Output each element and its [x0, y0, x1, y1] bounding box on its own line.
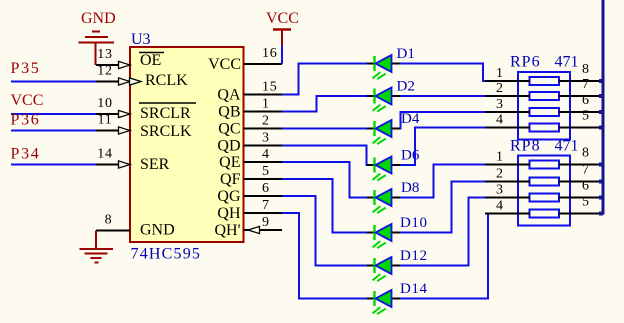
- wire LED D8 to resistor pack: [400, 165, 486, 198]
- pin 2 of RP8: [485, 181, 530, 183]
- svg-text:QC: QC: [218, 121, 240, 138]
- resistor RP8.2: [530, 178, 560, 186]
- pin 5 QF (right): [244, 178, 283, 180]
- svg-text:D10: D10: [400, 215, 428, 231]
- svg-text:13: 13: [97, 47, 113, 62]
- wire LED D6 to resistor pack: [400, 128, 486, 166]
- svg-text:7: 7: [582, 163, 589, 178]
- svg-text:3: 3: [496, 97, 503, 112]
- wire LED D1 to resistor pack: [400, 64, 486, 82]
- resistor pack RP8 body: [518, 156, 570, 226]
- svg-text:QE: QE: [219, 154, 240, 171]
- pin 15 QA (right): [244, 94, 283, 96]
- pin 4 QE (right): [244, 161, 283, 163]
- pin 3 of RP6: [485, 111, 530, 113]
- resistor RP6.2: [530, 92, 560, 100]
- svg-text:QA: QA: [217, 87, 241, 104]
- svg-text:D4: D4: [401, 111, 420, 127]
- junction dot RP8 pin 8: [599, 163, 603, 167]
- resistor RP8.1: [530, 161, 560, 169]
- resistor RP6.3: [530, 108, 560, 116]
- svg-text:7: 7: [262, 198, 270, 213]
- LED D1: [367, 55, 401, 79]
- wire VCC to pin16: [281, 46, 283, 65]
- junction dot RP8 pin 6: [599, 196, 603, 200]
- LED D14: [367, 290, 401, 314]
- svg-text:P34: P34: [11, 146, 41, 163]
- wire LED D10 to resistor pack: [400, 182, 486, 233]
- svg-text:D1: D1: [397, 46, 415, 62]
- svg-text:471: 471: [555, 54, 579, 71]
- resistor pack RP6 body: [518, 72, 570, 140]
- svg-text:D12: D12: [400, 248, 428, 264]
- pin 1 of RP8: [485, 164, 530, 166]
- wire LED D12 to resistor pack: [400, 198, 486, 266]
- svg-text:2: 2: [262, 114, 270, 129]
- LED D10: [367, 224, 401, 248]
- wire QA to LED: [282, 64, 368, 95]
- svg-text:RCLK: RCLK: [145, 72, 188, 89]
- wire net P36: [11, 130, 96, 132]
- GND power symbol (top): [79, 32, 115, 66]
- pin 8 GND (left): [96, 230, 130, 232]
- svg-text:QB: QB: [218, 104, 240, 121]
- svg-text:SRCLR: SRCLR: [140, 105, 191, 122]
- junction dot RP8 pin 5: [599, 212, 603, 216]
- pin 11 SRCLK (left): [96, 130, 130, 132]
- junction dot RP6 pin 5: [599, 126, 603, 130]
- svg-text:GND: GND: [140, 222, 175, 239]
- pin 8 of RP6: [559, 80, 603, 82]
- pin 12 RCLK (left): [96, 81, 130, 83]
- svg-text:8: 8: [582, 146, 589, 161]
- wire QH to LED: [282, 213, 368, 299]
- svg-text:8: 8: [582, 62, 589, 77]
- svg-text:6: 6: [582, 179, 589, 194]
- svg-text:QF: QF: [220, 171, 241, 188]
- svg-text:SRCLK: SRCLK: [140, 123, 192, 140]
- junction dot RP6 pin 6: [599, 110, 603, 114]
- pin 2 QC (right): [244, 128, 283, 130]
- svg-text:U3: U3: [131, 31, 151, 48]
- pin 10 SRCLR (left): [96, 113, 130, 115]
- svg-text:12: 12: [97, 64, 113, 79]
- svg-text:VCC: VCC: [266, 10, 299, 27]
- svg-text:VCC: VCC: [11, 92, 44, 109]
- wire LED D14 to resistor pack: [400, 215, 488, 299]
- svg-text:QH: QH: [217, 205, 241, 222]
- pin 6 QG (right): [244, 195, 283, 197]
- pin 2 of RP6: [485, 95, 530, 97]
- wire QF to LED: [282, 179, 368, 233]
- svg-text:4: 4: [496, 113, 503, 128]
- LED D4: [367, 120, 401, 144]
- pin 5 of RP8: [559, 213, 603, 215]
- svg-text:RP8: RP8: [510, 138, 541, 155]
- svg-text:5: 5: [582, 109, 589, 124]
- pin 3 QD (right): [244, 145, 283, 147]
- svg-text:1: 1: [262, 97, 270, 112]
- svg-text:8: 8: [105, 213, 113, 228]
- LED D2: [367, 88, 401, 112]
- pin 13 OE (left): [96, 64, 130, 66]
- svg-text:RP6: RP6: [510, 54, 541, 71]
- svg-text:4: 4: [496, 199, 503, 214]
- svg-text:D6: D6: [401, 148, 420, 164]
- svg-text:VCC: VCC: [208, 56, 241, 73]
- wire net VCC: [11, 113, 96, 115]
- wire net P35: [11, 81, 96, 83]
- svg-text:4: 4: [262, 147, 270, 162]
- wire LED D4 to resistor pack: [400, 112, 486, 129]
- resistor RP6.4: [530, 124, 560, 132]
- svg-text:QD: QD: [217, 138, 240, 155]
- wire VCC bus (right edge): [602, 0, 605, 215]
- resistor RP8.4: [530, 210, 560, 218]
- wire net P34: [11, 164, 96, 166]
- svg-text:1: 1: [496, 66, 503, 81]
- svg-text:6: 6: [262, 181, 270, 196]
- svg-text:74HC595: 74HC595: [131, 246, 202, 263]
- svg-text:7: 7: [582, 77, 589, 92]
- wire QC to LED: [282, 128, 368, 130]
- pin 1 of RP6: [485, 80, 530, 82]
- ground symbol (bottom): [95, 231, 97, 249]
- pin 4 of RP8: [485, 213, 530, 215]
- svg-text:1: 1: [496, 150, 503, 165]
- pin 7 of RP6: [559, 95, 603, 97]
- svg-text:5: 5: [262, 164, 270, 179]
- svg-text:16: 16: [262, 46, 278, 61]
- svg-text:9: 9: [262, 215, 270, 230]
- pin 1 QB (right): [244, 111, 283, 113]
- svg-text:3: 3: [262, 131, 270, 146]
- LED D12: [367, 257, 401, 281]
- pin 5 of RP6: [559, 127, 603, 129]
- svg-text:10: 10: [97, 96, 113, 111]
- svg-text:GND: GND: [81, 10, 116, 27]
- wire QD to LED: [282, 146, 368, 166]
- pin 6 of RP6: [559, 111, 603, 113]
- junction dot RP6 pin 7: [599, 94, 603, 98]
- pin 3 of RP8: [485, 197, 530, 199]
- IC U3 74HC595 chip body: [130, 47, 244, 242]
- svg-text:QG: QG: [217, 188, 241, 205]
- svg-text:QH': QH': [215, 222, 241, 239]
- svg-text:15: 15: [262, 80, 278, 95]
- VCC power symbol (top): [273, 28, 291, 31]
- resistor RP8.3: [530, 194, 560, 202]
- svg-text:D2: D2: [397, 79, 415, 95]
- svg-text:2: 2: [496, 167, 503, 182]
- wire QB to LED: [282, 96, 368, 112]
- pin 6 of RP8: [559, 197, 603, 199]
- junction dot RP6 pin 8: [599, 79, 603, 83]
- pin 8 of RP8: [559, 164, 603, 166]
- pin 7 QH (right): [244, 212, 283, 214]
- pin 9 QH' (right): [244, 229, 283, 231]
- svg-text:2: 2: [496, 81, 503, 96]
- svg-text:5: 5: [582, 195, 589, 210]
- svg-text:SER: SER: [140, 156, 170, 173]
- svg-text:6: 6: [582, 93, 589, 108]
- resistor RP6.1: [530, 77, 560, 85]
- svg-text:11: 11: [97, 113, 112, 128]
- svg-text:14: 14: [97, 147, 113, 162]
- junction dot RP8 pin 7: [599, 180, 603, 184]
- svg-text:D8: D8: [401, 180, 419, 196]
- pin 4 of RP6: [485, 127, 530, 129]
- svg-text:471: 471: [555, 138, 579, 155]
- wire QG to LED: [282, 196, 368, 266]
- svg-text:P36: P36: [11, 112, 41, 129]
- svg-text:OE: OE: [140, 52, 161, 69]
- LED D8: [367, 189, 401, 213]
- svg-text:D14: D14: [400, 281, 428, 297]
- svg-text:3: 3: [496, 183, 503, 198]
- wire QE to LED: [282, 162, 368, 198]
- pin 16 VCC (right): [244, 63, 283, 65]
- svg-text:P35: P35: [11, 60, 41, 77]
- wire LED D2 to resistor pack: [400, 95, 486, 97]
- pin 14 SER (left): [96, 164, 130, 166]
- pin 7 of RP8: [559, 181, 603, 183]
- LED D6: [367, 157, 401, 181]
